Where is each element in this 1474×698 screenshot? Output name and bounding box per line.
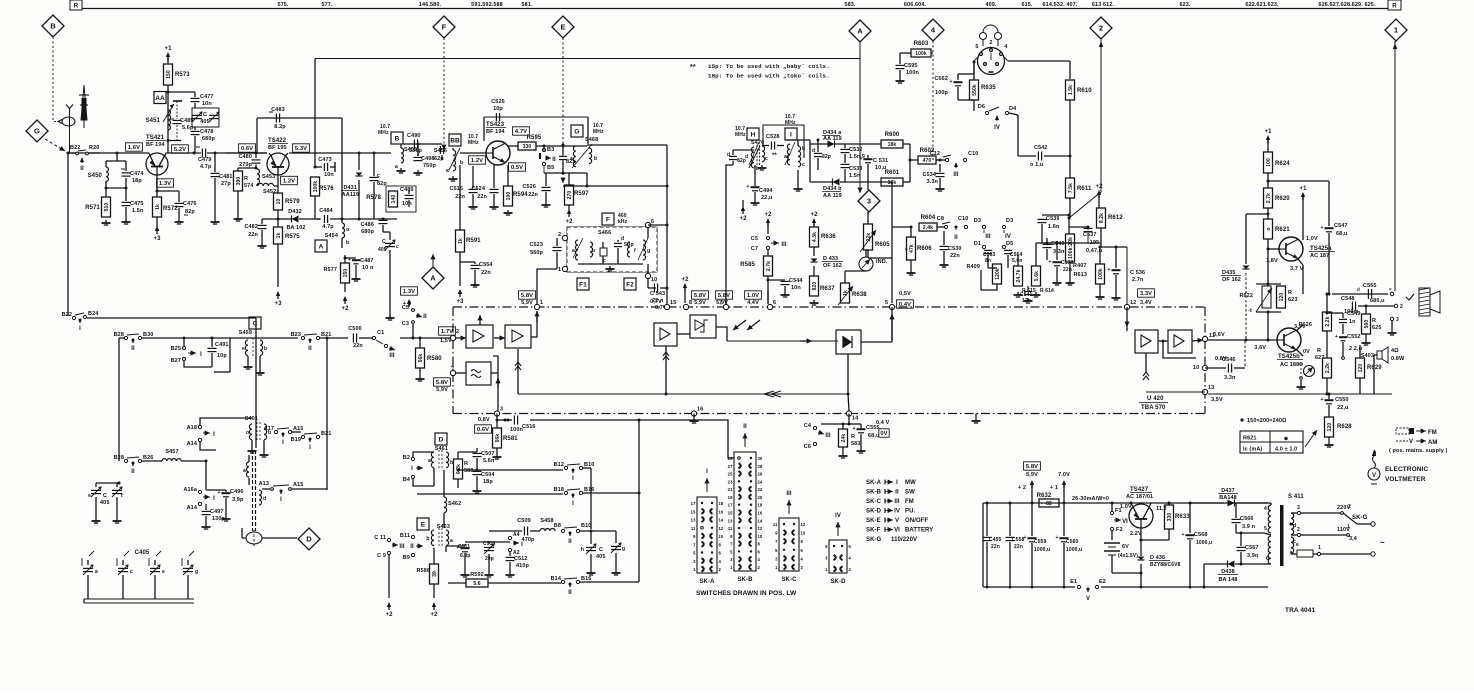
svg-text:1: 1 <box>1394 26 1398 35</box>
supply +3 input <box>407 299 411 304</box>
wire to detector <box>810 143 828 145</box>
svg-text:150: 150 <box>166 70 172 79</box>
svg-text:+: + <box>1182 532 1185 538</box>
svg-text:5,6n: 5,6n <box>1012 258 1022 264</box>
svg-text:e: e <box>88 493 91 499</box>
switch C8 C10 <box>944 225 947 228</box>
IC pin node 16 <box>691 411 696 416</box>
svg-text:U 420: U 420 <box>1147 396 1164 402</box>
capacitor C485 5.6p <box>173 100 182 102</box>
svg-text:C484: C484 <box>319 208 333 214</box>
svg-text:c: c <box>765 156 768 162</box>
svg-text:1.0V: 1.0V <box>1120 504 1132 510</box>
capacitor C511 6.8p <box>445 546 447 552</box>
svg-text:R621: R621 <box>1275 227 1290 233</box>
diode D438 BA148 <box>1228 561 1235 568</box>
DIN pin leads <box>974 57 978 61</box>
wire line to TS422 <box>225 152 267 154</box>
svg-text:12: 12 <box>758 526 763 531</box>
svg-text:I: I <box>411 466 413 472</box>
svg-text:AC 188: AC 188 <box>1280 362 1299 368</box>
svg-text:C10: C10 <box>958 216 968 222</box>
connector diamond F <box>433 16 455 38</box>
resistor R580 56k <box>416 348 425 368</box>
box H <box>747 128 759 140</box>
wire tank top <box>168 91 195 93</box>
svg-text:C12: C12 <box>930 151 940 157</box>
svg-text:c: c <box>396 244 399 250</box>
supply +1 TS425a <box>1301 192 1305 197</box>
svg-text:390: 390 <box>236 177 242 186</box>
capacitor C533 1.5n <box>841 163 850 165</box>
connector diamond G <box>26 120 48 142</box>
svg-text:C 9: C 9 <box>377 553 386 559</box>
wire A4 down loop <box>1163 341 1196 358</box>
svg-text:BATTERY: BATTERY <box>905 528 933 534</box>
svg-text:680p: 680p <box>202 136 215 142</box>
svg-text:C565: C565 <box>1363 283 1377 289</box>
wire C11 down supply <box>388 555 390 598</box>
svg-text:5.8V: 5.8V <box>521 293 533 299</box>
svg-text:D4: D4 <box>1009 106 1017 112</box>
svg-text:C491: C491 <box>215 342 229 348</box>
svg-text:1.0V: 1.0V <box>747 293 759 299</box>
svg-text:3.9 n: 3.9 n <box>1242 524 1256 530</box>
svg-text:+1: +1 <box>1299 186 1307 192</box>
wire audio line 340 <box>1208 339 1277 341</box>
svg-text:7.5k: 7.5k <box>1068 183 1074 193</box>
svg-text:560: 560 <box>1364 320 1370 329</box>
svg-text:3.3n: 3.3n <box>927 179 939 185</box>
switch A13 A15 <box>271 488 274 491</box>
wire det to node5 <box>861 341 892 343</box>
svg-text:A17: A17 <box>264 426 274 432</box>
svg-text:B23: B23 <box>291 332 301 338</box>
svg-text:0.6V: 0.6V <box>241 146 253 152</box>
svg-text:15: 15 <box>670 300 676 306</box>
svg-text:120k: 120k <box>995 268 1001 280</box>
wire A1 up arrows <box>479 315 481 325</box>
capacitor C509 470p <box>489 530 522 532</box>
svg-text:5: 5 <box>885 300 888 306</box>
transformer S411 primary <box>1268 505 1271 533</box>
svg-text:18p: 18p <box>132 178 142 184</box>
svg-text:4.3k: 4.3k <box>812 232 818 242</box>
svg-text:II: II <box>568 590 572 596</box>
svg-text:F: F <box>442 23 447 32</box>
svg-text:o 1,u: o 1,u <box>1030 162 1043 168</box>
svg-text:R606: R606 <box>917 246 932 252</box>
IC pin node 3 <box>494 411 499 416</box>
svg-text:C3: C3 <box>402 321 409 327</box>
svg-text:24k: 24k <box>841 434 847 443</box>
svg-text:10n: 10n <box>324 172 334 178</box>
svg-text:2.2k: 2.2k <box>1325 363 1331 373</box>
transistor TS421 BF194 <box>146 153 168 175</box>
svg-text:22,u: 22,u <box>1337 405 1348 411</box>
svg-text:E: E <box>560 23 565 32</box>
svg-text:B16: B16 <box>584 487 594 493</box>
svg-text:680,u: 680,u <box>1370 298 1385 304</box>
wire A15 B19 <box>292 431 301 433</box>
capacitor 82p mixer <box>562 145 564 155</box>
svg-text:a: a <box>784 154 787 160</box>
svg-text:A16a: A16a <box>183 487 197 493</box>
DIN top circles <box>980 33 987 40</box>
svg-text:III: III <box>399 544 405 550</box>
wire dashed arrow from G <box>45 139 65 151</box>
svg-text:17: 17 <box>728 503 733 508</box>
svg-text:C 536: C 536 <box>1130 270 1145 276</box>
svg-text:SK-F: SK-F <box>866 528 881 534</box>
capacitor C530 22n <box>943 231 945 245</box>
svg-text:S456: S456 <box>434 148 447 154</box>
svg-text:S462: S462 <box>448 501 461 507</box>
svg-text:IV: IV <box>835 513 841 519</box>
diode D432 BA102 <box>292 216 299 223</box>
resistor R601 18k <box>881 178 903 186</box>
legend FM <box>1396 428 1409 434</box>
resistor R635 550k <box>970 80 979 100</box>
svg-text:3,6V: 3,6V <box>1254 345 1266 351</box>
svg-text:R632: R632 <box>1037 493 1052 499</box>
svg-text:B11: B11 <box>400 533 410 539</box>
svg-text:3,6V: 3,6V <box>1213 332 1225 338</box>
svg-text:22n: 22n <box>477 194 487 200</box>
svg-text:+3: +3 <box>153 236 161 242</box>
svg-text:R586: R586 <box>416 568 430 574</box>
wire battery to zener <box>1111 565 1113 573</box>
svg-text:10: 10 <box>1090 240 1096 246</box>
svg-text:1.3V: 1.3V <box>403 289 415 295</box>
wire node3 up into IC <box>497 373 499 411</box>
switch B22 B20 <box>68 152 75 154</box>
svg-text:**: ** <box>196 146 200 152</box>
IC pin node 15 <box>664 304 669 309</box>
gang capacitor g <box>183 567 193 569</box>
svg-text:e: e <box>162 569 165 575</box>
svg-text:C486: C486 <box>360 222 374 228</box>
wire D435 dotted down <box>1245 273 1247 340</box>
inductor S458 <box>540 529 555 532</box>
wire TS425a base <box>1268 248 1279 250</box>
svg-text:II: II <box>131 346 135 352</box>
svg-text:R579: R579 <box>285 199 300 205</box>
svg-text:4Ω: 4Ω <box>1391 348 1399 354</box>
svg-text:1: 1 <box>540 300 543 306</box>
svg-text:A15: A15 <box>293 426 303 432</box>
svg-text:B22: B22 <box>70 145 80 151</box>
svg-text:SK-B: SK-B <box>737 577 753 583</box>
feedback arrows <box>771 391 781 397</box>
svg-text:405: 405 <box>100 500 109 506</box>
capacitor C537 trimmer <box>1069 226 1088 228</box>
transformer S411 secondary <box>1291 513 1294 535</box>
svg-text:R: R <box>464 461 468 467</box>
gang pair e f <box>96 482 119 484</box>
switch B11 B9 <box>411 535 414 538</box>
svg-text:SK-A: SK-A <box>866 480 882 486</box>
svg-text:C487: C487 <box>360 258 374 264</box>
svg-text:13: 13 <box>728 518 733 523</box>
svg-text:C547: C547 <box>1334 223 1348 229</box>
svg-text:+2: +2 <box>681 277 689 283</box>
arrow II above SK-B <box>744 433 746 447</box>
connector diamond 3 <box>858 190 880 212</box>
wire R603 area <box>911 49 931 57</box>
svg-text:623: 623 <box>1288 297 1297 303</box>
svg-text:A: A <box>430 274 436 283</box>
svg-text:S458: S458 <box>540 518 553 524</box>
svg-text:405: 405 <box>378 247 387 253</box>
svg-text:R: R <box>1372 318 1376 324</box>
voltage 5.8V supply <box>1024 462 1041 470</box>
resistor R628 <box>1325 417 1334 437</box>
resistor R629 <box>1356 358 1365 378</box>
coil S468b <box>589 148 592 164</box>
svg-text:14: 14 <box>758 518 763 523</box>
svg-text:III: III <box>825 433 831 439</box>
capacitor C497 130p <box>205 504 207 510</box>
wire B16 right <box>583 492 639 494</box>
supply +3 mixer <box>458 289 462 294</box>
svg-text:c: c <box>130 569 133 575</box>
wire R585 to bottom <box>767 290 769 303</box>
svg-text:100: 100 <box>506 192 512 201</box>
contact C2 III <box>384 344 387 347</box>
svg-text:6: 6 <box>773 300 776 306</box>
transformer S411 core <box>1280 505 1284 566</box>
svg-text:18: 18 <box>758 503 763 508</box>
svg-text:MHz: MHz <box>785 120 796 126</box>
svg-text:SW: SW <box>905 490 915 496</box>
svg-text:0V: 0V <box>880 431 887 437</box>
supply +2 R612 <box>1097 190 1101 195</box>
svg-text:23: 23 <box>728 479 733 484</box>
svg-text:68,u: 68,u <box>1336 231 1347 237</box>
svg-text:R621: R621 <box>1243 436 1257 442</box>
wire D434b row <box>810 181 832 183</box>
svg-text:1k: 1k <box>155 204 161 210</box>
svg-text:o: o <box>1266 227 1272 230</box>
capacitor C552 22u <box>1339 336 1347 338</box>
connector diamond 4 <box>922 19 944 41</box>
limiter box 1 <box>654 323 677 346</box>
svg-text:SK-G: SK-G <box>1352 515 1368 521</box>
resistor R621 <box>1264 219 1273 239</box>
wire S457 right <box>181 460 206 462</box>
svg-text:C524: C524 <box>471 186 485 192</box>
svg-text:MHz: MHz <box>378 130 389 136</box>
svg-text:2: 2 <box>1099 24 1103 33</box>
svg-text:C 543: C 543 <box>650 291 665 297</box>
svg-text:+: + <box>747 184 750 190</box>
inductor S457 <box>162 459 181 461</box>
svg-text:FM: FM <box>1428 430 1437 436</box>
IC pin node 1 <box>534 304 539 309</box>
svg-text:D: D <box>439 436 444 443</box>
amplifier A1 box <box>466 325 493 348</box>
ferrite coil a <box>247 462 250 477</box>
variable resistor R605 22k <box>864 224 873 250</box>
IC pin node 14 <box>846 411 851 416</box>
svg-text:V: V <box>1372 473 1376 479</box>
resistor R579 10 <box>277 175 279 193</box>
wire C491 to S459 <box>214 371 230 373</box>
svg-text:1.5n: 1.5n <box>132 208 144 214</box>
svg-text:5.3V: 5.3V <box>295 146 307 152</box>
connector diamond A mid <box>422 267 444 289</box>
svg-text:II: II <box>552 157 556 163</box>
svg-text:C474: C474 <box>130 171 144 177</box>
connector diamond A top <box>849 20 871 42</box>
transistor TS423 BF194 <box>486 141 510 165</box>
svg-text:C481: C481 <box>219 174 233 180</box>
svg-text:C526: C526 <box>522 184 536 190</box>
svg-text:100k:20k: 100k:20k <box>1068 237 1074 259</box>
svg-text:S455: S455 <box>404 147 417 153</box>
svg-text:II: II <box>410 544 414 550</box>
resistor R576 100k <box>311 177 320 196</box>
svg-text:10: 10 <box>651 277 657 283</box>
svg-text:581.: 581. <box>521 2 532 8</box>
wire secondary taps <box>1291 512 1298 514</box>
table arrow <box>1305 430 1317 447</box>
capacitor C546 3.3n <box>1205 367 1226 369</box>
supply +1 arrow ps <box>1062 480 1066 485</box>
diode D433 OF162 <box>813 247 815 256</box>
svg-text:B10: B10 <box>584 462 594 468</box>
contact C1 <box>372 336 375 339</box>
svg-text:R605: R605 <box>875 242 890 248</box>
switch C12 C10 <box>945 158 948 161</box>
wire to SK-B pin29 <box>639 420 734 458</box>
wire R573 down <box>167 85 169 92</box>
capacitor C483 8.2p bridge <box>257 117 342 119</box>
svg-text:C560: C560 <box>1066 539 1078 545</box>
svg-text:D3: D3 <box>974 218 981 224</box>
IC pin node 13 <box>1202 389 1207 394</box>
resistor R624 <box>1264 152 1273 173</box>
svg-text:SK-B: SK-B <box>866 490 882 496</box>
svg-text:5.6n: 5.6n <box>483 458 495 464</box>
svg-text:22n: 22n <box>1014 544 1023 550</box>
svg-text:D438: D438 <box>1221 569 1235 575</box>
svg-text:0V: 0V <box>1303 349 1310 355</box>
svg-text:3,5V: 3,5V <box>1211 397 1223 403</box>
svg-text:SK-C: SK-C <box>866 499 882 505</box>
legend AM <box>1396 440 1408 442</box>
svg-text:550k: 550k <box>972 84 978 96</box>
svg-text:3,9n: 3,9n <box>1247 553 1259 559</box>
svg-text:R637: R637 <box>820 286 835 292</box>
svg-text:AC 187: AC 187 <box>1310 253 1329 259</box>
wire mains 110V <box>1301 534 1347 536</box>
svg-text:C482: C482 <box>244 224 258 230</box>
svg-text:R622: R622 <box>1239 293 1253 299</box>
svg-text:C509: C509 <box>517 518 531 524</box>
svg-text:0,8V: 0,8V <box>478 417 490 423</box>
coil S471a <box>787 144 790 165</box>
IC pin node 8b <box>683 304 688 309</box>
wire D435 branch <box>1246 213 1268 215</box>
wire R620 tap right <box>1268 180 1329 182</box>
wire R600 R601 join <box>909 144 911 182</box>
wire B2 to S461 <box>413 452 434 457</box>
wire from 1 down to jack <box>1394 41 1396 291</box>
wire row 494 <box>417 493 563 495</box>
capacitor C544 10n <box>768 279 785 281</box>
amplifier A2 box <box>505 325 531 348</box>
svg-text:R20: R20 <box>89 145 99 151</box>
svg-text:c: c <box>377 173 380 179</box>
capacitor C554 22n <box>460 261 475 263</box>
svg-text:+2: +2 <box>385 612 393 618</box>
svg-text:56k: 56k <box>495 434 501 443</box>
svg-text:28: 28 <box>758 464 763 469</box>
wire TS421 base <box>149 153 150 156</box>
svg-text:11: 11 <box>691 526 696 531</box>
svg-text:R: R <box>74 4 79 10</box>
switch B12 B10b <box>564 466 567 469</box>
switch B14 B16b <box>561 580 564 583</box>
svg-text:100k: 100k <box>915 51 927 57</box>
diode D431 AA119 <box>358 152 361 155</box>
svg-text:a: a <box>905 246 908 251</box>
svg-text:+: + <box>348 257 351 263</box>
svg-text:1k: 1k <box>276 233 282 239</box>
resistor R585 2.7k <box>764 256 773 276</box>
svg-text:SK-G: SK-G <box>866 537 882 543</box>
svg-text:C533: C533 <box>849 166 863 172</box>
svg-text:AA119: AA119 <box>342 192 359 198</box>
svg-text:C5: C5 <box>751 236 758 242</box>
svg-text:C498: C498 <box>421 156 435 162</box>
svg-text:1000,u: 1000,u <box>1034 547 1050 553</box>
capacitor C481 27p <box>214 153 216 172</box>
svg-text:2: 2 <box>558 232 561 238</box>
supply +2 S470 <box>741 206 745 211</box>
IC pin node 5 <box>889 304 894 309</box>
svg-text:22n: 22n <box>353 343 363 349</box>
wire C549 top <box>1327 312 1343 314</box>
svg-text:V: V <box>1086 596 1090 602</box>
capacitor C476 82p <box>157 190 179 192</box>
resistor R574 390 <box>234 171 243 191</box>
coupling loop over I box <box>763 125 804 158</box>
svg-text:C8: C8 <box>937 216 944 222</box>
switch block SK-B <box>734 452 756 571</box>
svg-text:C539: C539 <box>1046 216 1060 222</box>
wire speaker to line <box>1373 355 1375 394</box>
svg-text:a: a <box>395 164 398 170</box>
wire S459 gnd <box>247 356 249 364</box>
supply +1 arrow <box>166 52 170 57</box>
switch block SK-D <box>829 540 847 573</box>
wire dotted to C546 <box>1244 341 1246 368</box>
resistor R595 330 <box>508 145 518 147</box>
svg-text:B: B <box>50 22 56 31</box>
resistor R592 5.6 <box>466 579 488 587</box>
svg-text:1.6V: 1.6V <box>128 145 140 151</box>
capacitor C547 68u <box>1328 222 1330 226</box>
svg-text:III: III <box>894 499 900 505</box>
svg-text:100: 100 <box>1266 158 1272 167</box>
capacitor C566 3.9n <box>1232 518 1241 520</box>
svg-text:140: 140 <box>391 195 397 204</box>
svg-text:22n: 22n <box>248 232 258 238</box>
wire limiter in arrows <box>733 320 746 330</box>
